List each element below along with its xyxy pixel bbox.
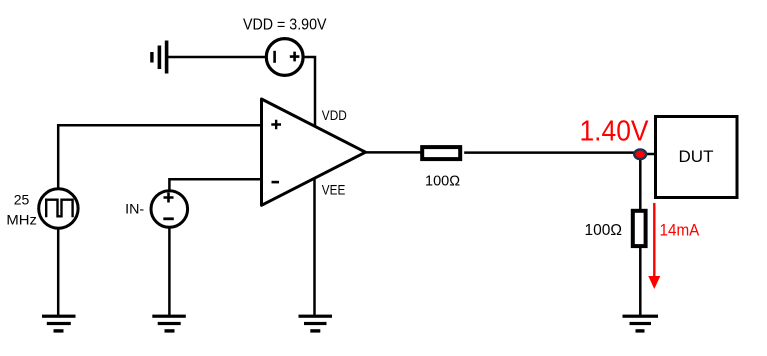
resistor R1 (100 ohm, horizontal) (422, 147, 460, 159)
svg-text:25: 25 (14, 192, 30, 208)
wire V2 to GND2 (57, 229, 60, 317)
wire V2 to op-amp + input (58, 125, 261, 188)
svg-text:DUT: DUT (679, 147, 714, 166)
resistor R2 (100 ohm, vertical) (633, 211, 646, 246)
op-amp + input marking (271, 120, 281, 130)
svg-text:MHz: MHz (6, 211, 37, 227)
op-amp U1 (262, 99, 366, 205)
wire node to DUT (640, 153, 655, 156)
square-wave source V2 (25 MHz) (39, 189, 78, 228)
wire R1 to node (464, 151, 636, 154)
svg-text:100Ω: 100Ω (585, 222, 622, 239)
wire node down to R2 (639, 154, 642, 209)
svg-text:VDD = 3.90V: VDD = 3.90V (243, 17, 327, 34)
wire R2 to GND5 (639, 248, 642, 316)
voltage source V1 (VDD supply) (266, 39, 303, 76)
ground GND4 (below op-amp VEE) (299, 315, 333, 333)
wire VEE pin to GND4 (313, 178, 316, 316)
voltage source V3 (IN-) (151, 191, 188, 228)
current arrow (14mA, red) (648, 203, 660, 289)
wire V1 to op-amp VDD pin (304, 57, 315, 127)
svg-text:VDD: VDD (322, 107, 347, 123)
wire V3 to op-amp - input (169, 179, 261, 189)
svg-text:VEE: VEE (322, 181, 346, 197)
node (output node, red junction dot) (634, 150, 646, 160)
ground GND5 (below R2) (623, 315, 659, 333)
svg-text:14mA: 14mA (660, 222, 700, 240)
svg-text:1.40V: 1.40V (580, 115, 650, 147)
ground GND2 (below 25MHz source) (42, 315, 76, 333)
DUT box (656, 117, 738, 198)
ground GND3 (below IN- source) (152, 315, 186, 333)
wire V3 to GND3 (168, 228, 171, 316)
ground GND1 (rotated, left of VDD source) (150, 41, 168, 74)
wire op-amp output to R1 (364, 151, 421, 154)
svg-text:100Ω: 100Ω (425, 174, 460, 190)
op-amp - input marking (272, 181, 280, 184)
svg-text:IN-: IN- (125, 201, 144, 217)
wire GND1 to V1 (166, 56, 266, 59)
